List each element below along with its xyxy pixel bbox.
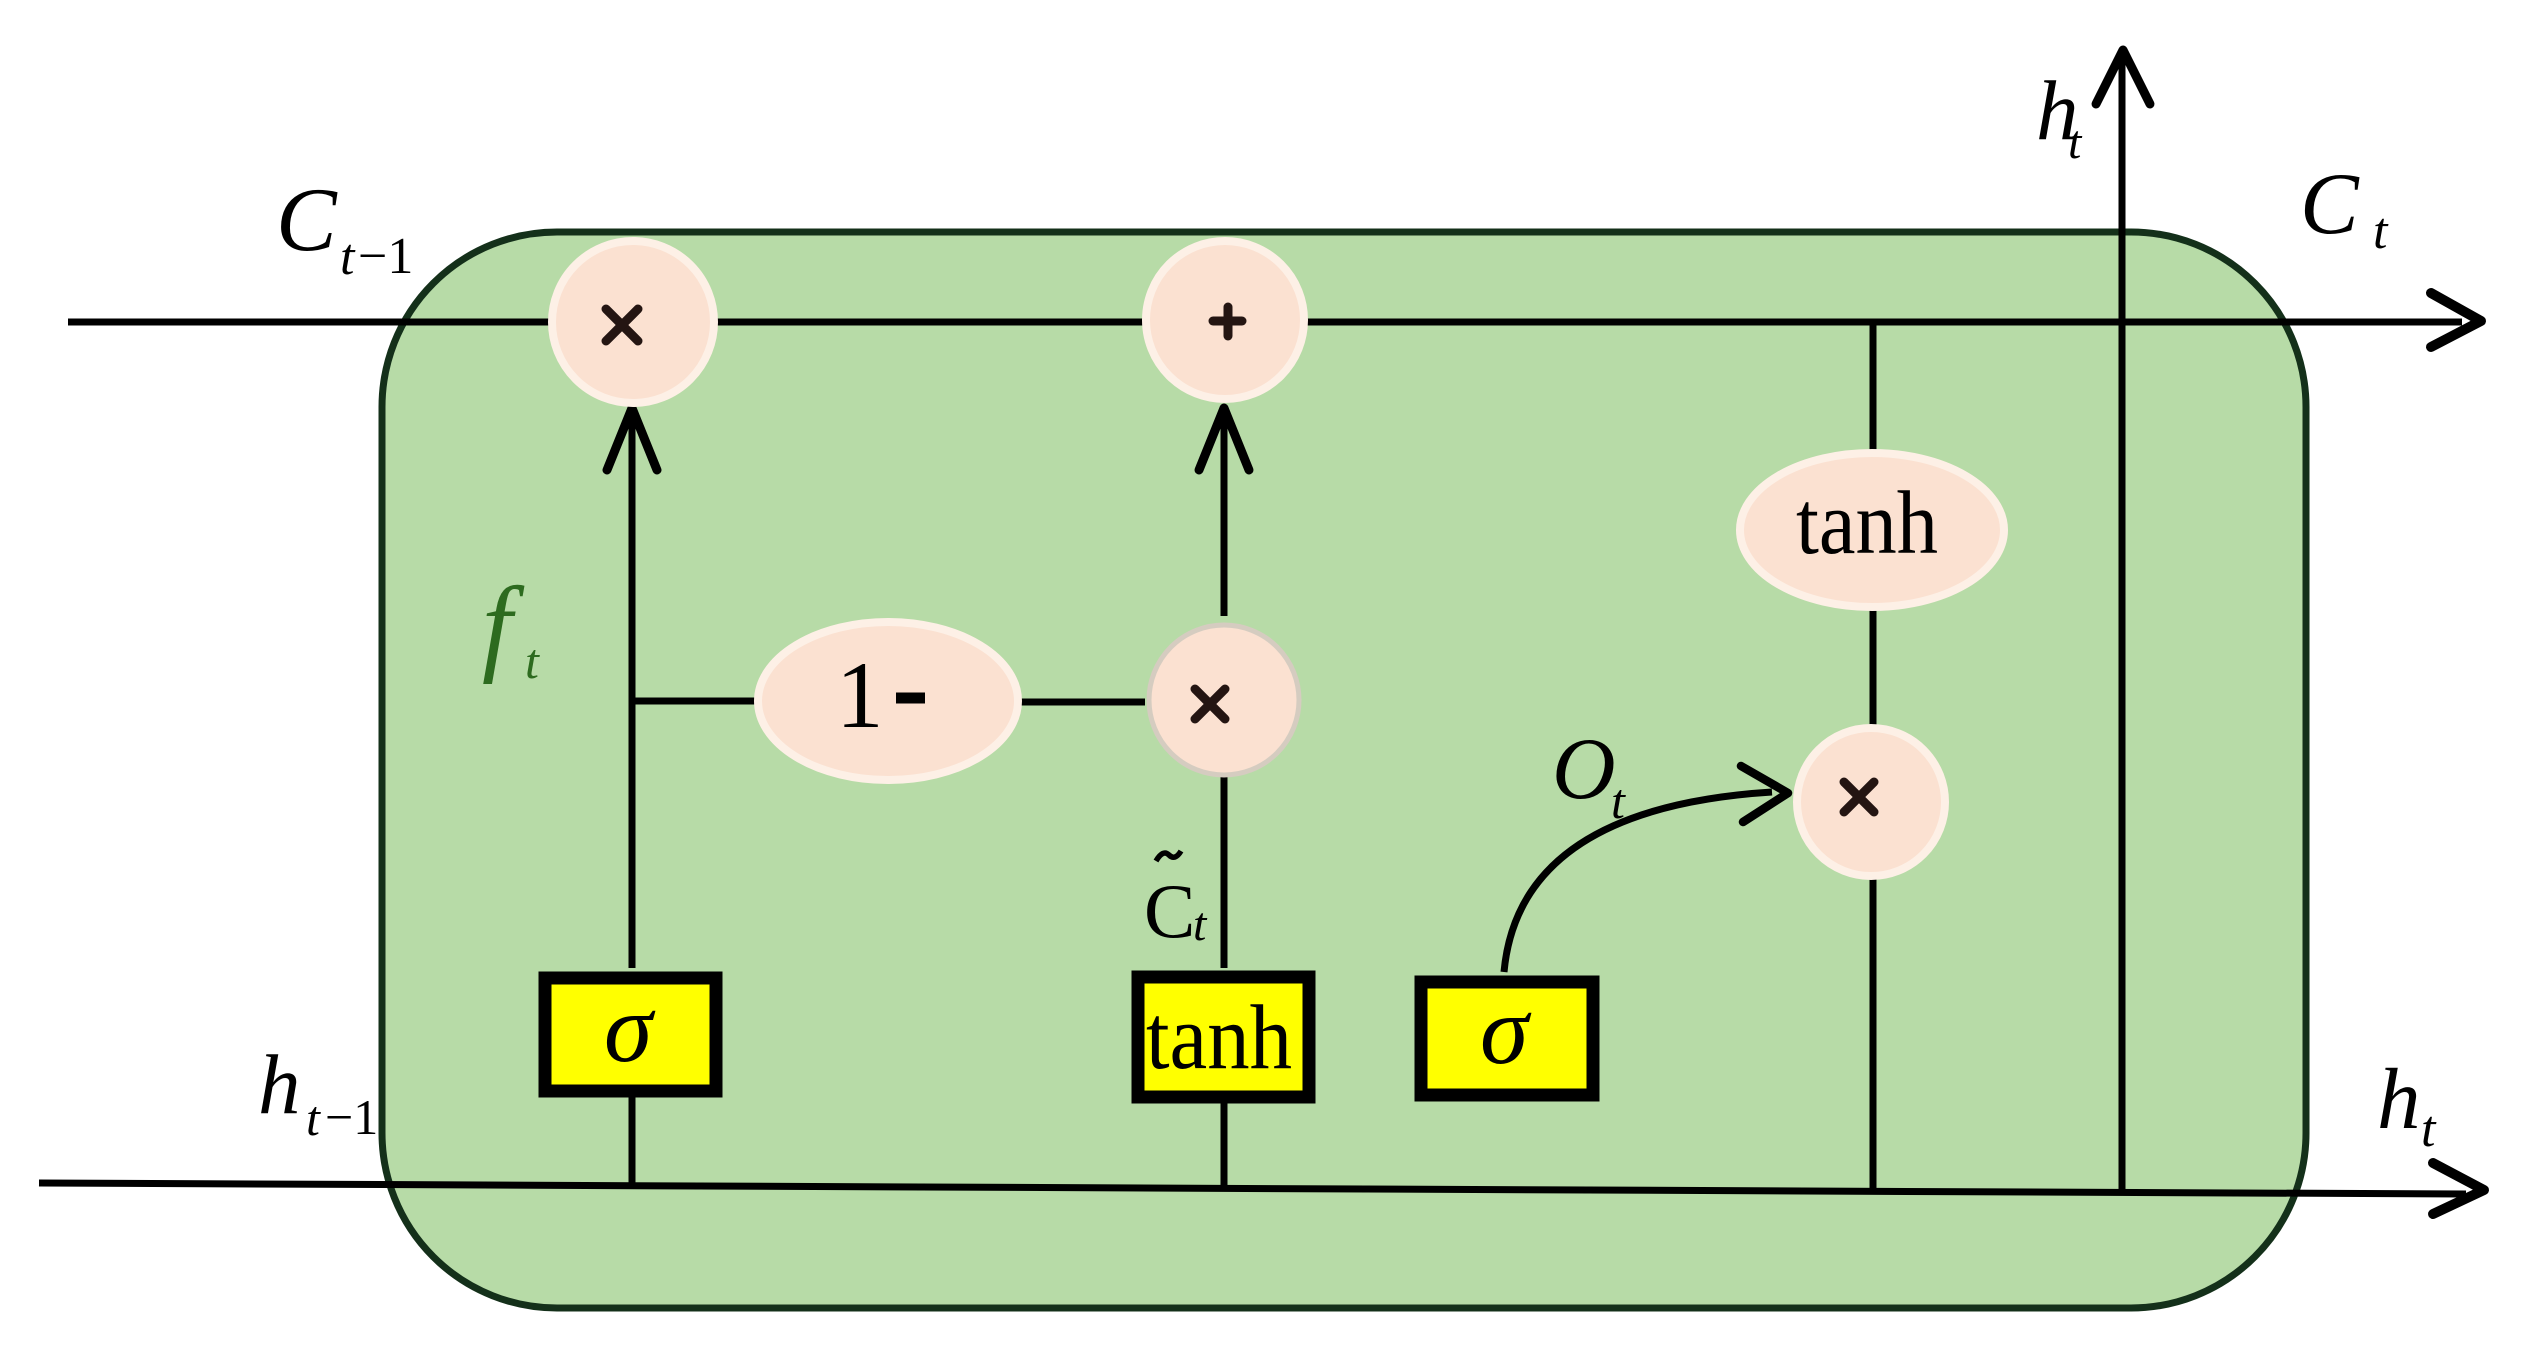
svg-text:C: C xyxy=(1144,868,1195,954)
svg-text:−1: −1 xyxy=(358,228,413,285)
svg-text:σ: σ xyxy=(604,975,656,1083)
svg-text:tanh: tanh xyxy=(1146,986,1292,1088)
svg-text:t: t xyxy=(1193,898,1208,951)
svg-text:O: O xyxy=(1552,721,1616,818)
svg-text:h: h xyxy=(258,1038,301,1132)
svg-text:t: t xyxy=(306,1090,321,1146)
svg-text:t: t xyxy=(340,229,356,286)
svg-text:σ: σ xyxy=(1480,977,1532,1085)
svg-text:C: C xyxy=(2300,156,2360,253)
svg-text:h: h xyxy=(2377,1050,2421,1147)
svg-text:t: t xyxy=(2421,1101,2437,1158)
svg-text:t: t xyxy=(2373,203,2389,260)
svg-text:t: t xyxy=(525,633,540,689)
svg-text:1: 1 xyxy=(836,642,884,748)
svg-text:t: t xyxy=(2068,116,2083,169)
svg-text:t: t xyxy=(1611,773,1626,829)
svg-text:tanh: tanh xyxy=(1796,474,1938,573)
svg-text:C: C xyxy=(276,169,338,270)
svg-text:−1: −1 xyxy=(325,1089,378,1145)
